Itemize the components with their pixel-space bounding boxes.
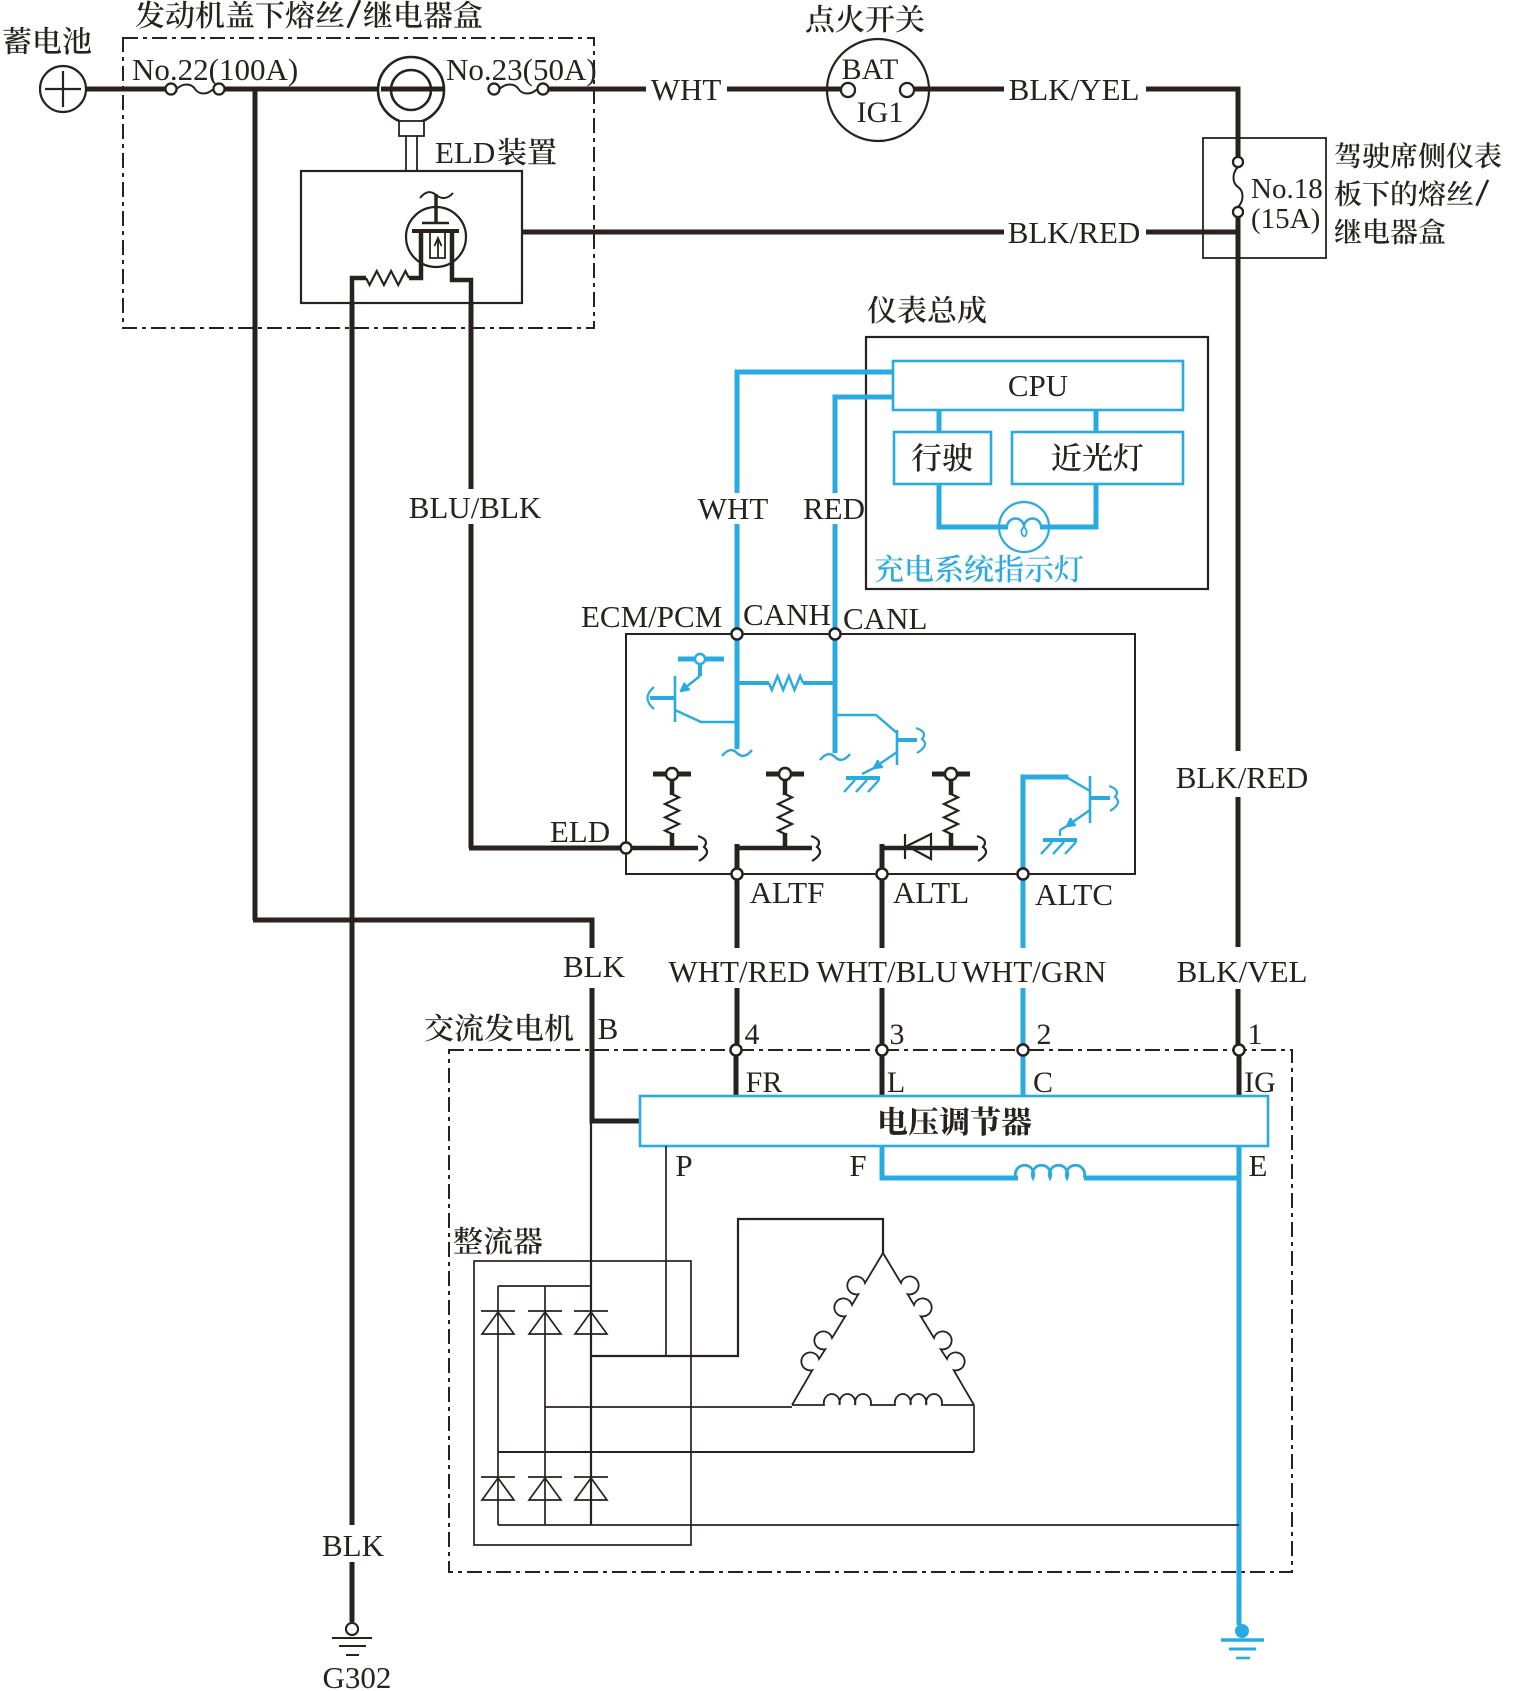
current sensor rings (ELD pickup) (379, 87, 444, 92)
svg-text:RED: RED (803, 491, 865, 526)
wire F to field winding (882, 1146, 1018, 1178)
wire battery to fuse No.22 (86, 87, 166, 92)
wire pin3 to regulator L (880, 1055, 885, 1096)
diode D7 (lower 3) (574, 1476, 608, 1478)
pull-up ALTL: resistor (949, 777, 954, 795)
svg-text:WHT/BLU: WHT/BLU (816, 954, 957, 989)
under-hood fuse/relay box 发动机盖下熔丝/继电器盒 (dash-dot) (123, 38, 594, 328)
svg-text:IG: IG (1244, 1066, 1276, 1099)
alternator box 交流发电机 (dash-dot) (449, 1050, 1292, 1572)
svg-text:B: B (598, 1011, 619, 1046)
node pin 1 (1234, 1045, 1245, 1056)
wire phase1 (to delta apex) (591, 1219, 883, 1356)
wire fuse No.23 to ignition switch (549, 87, 646, 92)
label 发动机盖下熔丝/继电器盒 (136, 0, 482, 28)
wire B+ bus (498, 1285, 591, 1287)
node branch to alternator B (253, 87, 258, 920)
svg-text:BLU/BLK: BLU/BLK (409, 490, 542, 525)
svg-text:WHT/RED: WHT/RED (668, 954, 809, 989)
svg-text:F: F (849, 1148, 866, 1183)
wire CPU to 行驶 (937, 410, 942, 432)
wire phase2 (to delta bottom-left) (545, 1406, 792, 1408)
svg-text:BLK: BLK (322, 1528, 385, 1563)
fuse No.22(100A) (166, 84, 177, 95)
diode D6 (lower 2) (544, 1407, 546, 1525)
svg-text:WHT: WHT (698, 491, 769, 526)
wire RED (CAN) CPU to CANL (835, 397, 893, 493)
svg-text:1: 1 (1248, 1018, 1263, 1051)
rectifier box 整流器 (474, 1261, 691, 1545)
wire pin4 to regulator FR (734, 1055, 739, 1096)
pull-up ALTF: terminal (766, 772, 804, 777)
svg-text:FR: FR (746, 1066, 783, 1099)
svg-text:BLK/RED: BLK/RED (1008, 215, 1141, 250)
wire CANL inside ECM (833, 640, 838, 753)
wire WHT (CAN) CPU to CANH (737, 372, 893, 493)
diode D4 (upper 3) (574, 1310, 608, 1312)
ELD unit box (301, 171, 522, 303)
svg-text:BLK/RED: BLK/RED (1176, 760, 1309, 795)
field winding inductor L1 (1015, 1165, 1084, 1178)
wire fuse No.22 to current sensor (225, 87, 379, 92)
svg-text:BLK/VEL: BLK/VEL (1177, 954, 1308, 989)
svg-text:(15A): (15A) (1251, 203, 1320, 235)
svg-text:BLK: BLK (563, 949, 626, 984)
label 仪表总成 (868, 296, 986, 324)
pull-up ALTF: resistor (783, 777, 788, 795)
CPU box (893, 361, 1183, 410)
label 点火开关 (806, 5, 924, 33)
ELD gate T stem (434, 194, 438, 223)
svg-text:ELD: ELD (435, 135, 495, 170)
ALTC transistor Q3 (blue) (1023, 777, 1066, 872)
CAN termination resistor (737, 681, 769, 685)
wire BLK/RED from ELD to under-dash fuse box (521, 230, 1004, 235)
box 行驶 (894, 432, 991, 484)
svg-text:WHT: WHT (651, 72, 722, 107)
label 电压调节器 (880, 1106, 1031, 1136)
node ALTC (1018, 869, 1029, 880)
wire WHT/GRN (ALTC) (1021, 874, 1026, 948)
diode D5 (lower 1) (497, 1452, 499, 1525)
CAN driver transistor Q1 (blue) (678, 657, 724, 662)
wire ignition to BLK/YEL (914, 87, 1004, 92)
node CANL (830, 629, 841, 640)
ELD inner sense box and up-arrow (430, 233, 445, 258)
wire BLU/BLK horizontal into ECM ELD pin (469, 846, 626, 851)
wire P (phase tap) (665, 1146, 667, 1356)
node pin 4 (731, 1045, 742, 1056)
wire BLK to alternator B (253, 920, 592, 948)
pull-up ELD: terminal (653, 772, 691, 777)
svg-text:No.23(50A): No.23(50A) (446, 52, 597, 87)
svg-text:ALTF: ALTF (750, 875, 825, 910)
gauge assembly box 仪表总成 (866, 337, 1208, 589)
fuse No.23(50A) (489, 84, 500, 95)
voltage regulator box 电压调节器 (640, 1096, 1268, 1146)
ignition terminal IG1 (900, 83, 914, 97)
svg-text:No.18: No.18 (1251, 173, 1323, 205)
svg-text:ALTL: ALTL (893, 875, 969, 910)
svg-text:4: 4 (745, 1018, 760, 1051)
diode D2 (upper 1) (497, 1286, 499, 1452)
svg-text:ELD: ELD (550, 814, 610, 849)
wire phase3 (to delta bottom-right) (498, 1451, 974, 1453)
svg-text:C: C (1033, 1066, 1053, 1099)
svg-text:2: 2 (1037, 1018, 1052, 1051)
ELD resistor (366, 271, 409, 285)
svg-text:ECM/PCM: ECM/PCM (581, 599, 722, 634)
junction rings overlay (166, 84, 177, 95)
ground G302 symbol (346, 1623, 358, 1635)
node ELD on ECM edge (621, 843, 632, 854)
wire pin2 to regulator C (1021, 1055, 1026, 1096)
ground (E) blue (1235, 1624, 1249, 1638)
wire BLK/YEL to fuse No.18 (1146, 89, 1238, 157)
under-dash fuse/relay box (1203, 138, 1326, 258)
wire WHT/BLU (ALTL) (880, 874, 885, 948)
label 整流器 (454, 1226, 543, 1254)
svg-text:IG1: IG1 (857, 96, 904, 129)
ELD source leg to resistor (409, 230, 421, 278)
wire B to regulator (592, 1119, 640, 1121)
node ALTL (877, 869, 888, 880)
wire ALTF stub + connector (737, 846, 812, 851)
svg-text:BLK/YEL: BLK/YEL (1009, 72, 1140, 107)
ECM/PCM box (626, 634, 1135, 874)
battery BAT (+) terminal (40, 66, 86, 112)
wire BLK (ELD to G302) (350, 303, 355, 1525)
svg-text:E: E (1249, 1148, 1268, 1183)
ELD gate bar (422, 222, 449, 225)
wire BLK/RED down from fuse No.18 (1236, 217, 1241, 751)
node ALTF (732, 869, 743, 880)
label 驾驶席侧仪表板下的熔丝/继电器盒 (1335, 142, 1501, 168)
svg-text:WHT/GRN: WHT/GRN (962, 954, 1107, 989)
svg-text:CANL: CANL (843, 601, 927, 636)
diode D1 in ALTL line (882, 846, 978, 851)
svg-text:ALTC: ALTC (1035, 877, 1113, 912)
charging indicator lamp wires (939, 484, 1008, 527)
wire ELD stub + connector (626, 846, 698, 851)
ELD leg to BLU/BLK output (452, 230, 471, 303)
svg-text:CPU: CPU (1008, 368, 1068, 403)
box 近光灯 (1012, 432, 1183, 484)
svg-text:3: 3 (890, 1018, 905, 1051)
ignition switch circle (827, 39, 929, 141)
svg-text:BAT: BAT (842, 53, 899, 86)
label battery 蓄电池 (3, 27, 91, 55)
wire B line into rectifier (590, 1119, 592, 1356)
svg-text:No.22(100A): No.22(100A) (132, 52, 298, 87)
fuse No.18(15A) (1233, 157, 1243, 167)
wire E to ground (1237, 1146, 1242, 1625)
node pin 2 (1018, 1045, 1029, 1056)
CAN driver transistor Q2 (blue) (835, 715, 897, 733)
label 充电系统指示灯 (875, 555, 1083, 583)
diode D3 (upper 2) (544, 1286, 546, 1407)
pull-up ELD: resistor (670, 777, 675, 795)
ground bus to E (498, 1524, 1239, 1526)
wire BLU/BLK (ELD to ECM) (469, 303, 474, 489)
ignition terminal BAT (841, 83, 855, 97)
stator winding (delta) (792, 1253, 883, 1405)
charging indicator lamp 充电系统指示灯 (999, 502, 1049, 552)
svg-text:P: P (675, 1148, 692, 1183)
label 交流发电机 (425, 1013, 573, 1041)
svg-text:G302: G302 (323, 1660, 392, 1691)
wire CANH inside ECM (735, 640, 740, 749)
wire CPU to 近光灯 (1094, 410, 1099, 432)
svg-text:CANH: CANH (743, 597, 831, 632)
ELD internal bar (412, 229, 459, 233)
wire WHT/RED (ALTF) (735, 874, 740, 948)
node CANH (732, 629, 743, 640)
pull-up ALTL: terminal (932, 772, 970, 777)
node pin 3 (877, 1045, 888, 1056)
ELD gate top wave (420, 192, 453, 198)
svg-text:L: L (887, 1066, 905, 1099)
wire pin1 to regulator IG (1237, 1055, 1242, 1096)
ELD transistor (MOSFET) circle (406, 207, 466, 267)
